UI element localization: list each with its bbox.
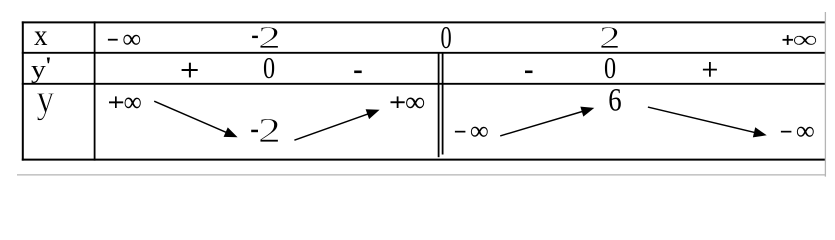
sign + (y' row, first interval) <box>182 63 198 78</box>
svg-text:0: 0 <box>604 51 616 86</box>
sign - (y' row, second interval) <box>354 71 362 74</box>
svg-text:2: 2 <box>258 110 281 150</box>
svg-text:y: y <box>37 76 55 121</box>
svg-text:6: 6 <box>608 82 621 118</box>
svg-text:0: 0 <box>263 51 275 86</box>
value -infinity (row x): minus bar <box>108 39 118 41</box>
row separator: y' / y <box>22 83 825 85</box>
svg-text:∞: ∞ <box>122 23 141 53</box>
sign + (y' row, fourth interval) <box>703 62 717 77</box>
limit -infinity at +infinity: minus bar <box>781 131 792 133</box>
double bar at x=0: left line <box>438 53 440 157</box>
minimum value -2: hyphen <box>251 130 258 133</box>
double bar at x=0: right line <box>442 53 444 155</box>
limit +infinity at -infinity: plus sign <box>109 96 123 108</box>
value +infinity (row x): plus sign <box>783 35 794 45</box>
svg-text:∞: ∞ <box>793 25 818 53</box>
svg-text:2: 2 <box>258 20 281 55</box>
svg-text:∞: ∞ <box>124 86 142 117</box>
svg-text:∞: ∞ <box>405 87 425 118</box>
svg-text:0: 0 <box>441 19 452 55</box>
limit -infinity at 0+: minus bar <box>455 131 466 133</box>
variation arrow: increasing to +infinity <box>294 109 379 140</box>
table outer border: top edge <box>22 21 825 23</box>
value -2 (row x): hyphen <box>252 36 258 38</box>
column separator: header column <box>94 21 96 160</box>
limit +infinity at 0-: plus sign <box>391 96 405 108</box>
svg-text:∞: ∞ <box>796 115 815 145</box>
svg-text:∞: ∞ <box>470 115 489 145</box>
faint page rule: vertical right <box>824 12 826 177</box>
variation arrow: decreasing to -2 <box>154 101 237 137</box>
variation table (tableau de variations) <box>0 0 835 186</box>
table outer border: bottom edge <box>22 159 825 161</box>
variation arrow: decreasing to -infinity <box>648 107 767 137</box>
table outer border: left edge <box>22 21 24 160</box>
row separator: x / y' <box>22 52 825 54</box>
variation arrow: increasing to 6 <box>500 107 594 136</box>
svg-text:2: 2 <box>599 20 621 55</box>
faint page rule: horizontal bottom <box>17 174 826 176</box>
svg-text:x: x <box>34 20 47 53</box>
sign - (y' row, third interval) <box>525 71 533 74</box>
